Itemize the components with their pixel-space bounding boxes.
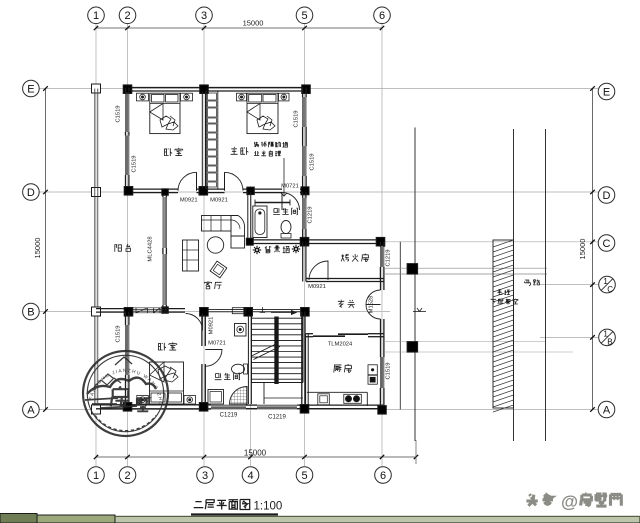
column A-5 (300, 405, 309, 414)
room label 客厅 (204, 281, 221, 289)
grid line axis 5 (304, 23, 306, 466)
svg-text:2: 2 (124, 470, 130, 482)
bed NW fold (150, 104, 163, 121)
svg-text:15000: 15000 (243, 19, 264, 28)
axis bubble A left (23, 401, 40, 418)
wall kitchen north (306, 333, 313, 335)
svg-text:C1219: C1219 (268, 415, 286, 421)
axis bubble A right (598, 401, 615, 418)
column A-2 (123, 403, 132, 412)
wall east SW bedroom (201, 315, 203, 346)
wall west of NW bedroom (125, 88, 127, 93)
room label NW 卧室 (164, 148, 182, 156)
top dimension line 15000 (96, 27, 382, 29)
door M0721 bath2 (205, 350, 222, 367)
road line west (513, 129, 515, 441)
bottom strip light (115, 517, 640, 523)
label 背景墙 (265, 246, 290, 253)
svg-text:C: C (603, 238, 611, 250)
svg-text:C1519: C1519 (116, 325, 122, 342)
bed SW frame (150, 362, 184, 404)
room label 烤火房 (341, 254, 368, 262)
wall kitchen east (380, 334, 382, 358)
wall E row (124, 87, 308, 89)
grid line axis 1 (95, 23, 97, 466)
axis bubble 5 bottom (296, 467, 313, 484)
kitchen sink (318, 394, 330, 405)
nightstand NW right (181, 93, 193, 101)
staircase treads (251, 317, 253, 383)
wall D row (126, 188, 179, 190)
column B-4 (244, 308, 253, 317)
bed SW pillows (151, 393, 165, 402)
room label 主卧 (231, 147, 249, 155)
grid line axis 3 (203, 23, 205, 466)
column D-3 mid (199, 187, 208, 196)
svg-text:M0921: M0921 (308, 284, 326, 290)
wall fire west (302, 242, 304, 282)
flower symbol east (292, 245, 300, 253)
svg-text:M0921: M0921 (209, 317, 215, 335)
partition wall segment (255, 202, 290, 204)
svg-text:C1219: C1219 (386, 249, 392, 266)
svg-text:15000: 15000 (244, 449, 267, 458)
svg-text:D: D (27, 187, 35, 199)
column A-3 (199, 403, 208, 412)
wall east entry (380, 282, 382, 291)
toilet bath1 (281, 221, 291, 234)
wall C row (248, 239, 384, 241)
room label 阳台 (115, 244, 131, 252)
elevation marker (413, 311, 426, 313)
wall A row (96, 404, 211, 406)
svg-text:1: 1 (93, 470, 99, 482)
svg-text:1:100: 1:100 (254, 501, 283, 513)
svg-text:3: 3 (202, 470, 208, 482)
coffee table round (207, 237, 223, 253)
sofa corner (231, 216, 245, 237)
axis bubble D right (598, 187, 615, 204)
column C-5 (300, 237, 309, 246)
bed NE frame (247, 93, 278, 133)
column B-2 (124, 308, 133, 317)
svg-text:@: @ (561, 492, 578, 512)
svg-text:5: 5 (301, 470, 307, 482)
kitchen appliance bottom (368, 375, 377, 384)
shower pan bath2 (230, 387, 248, 405)
wall west SW bedroom (125, 312, 127, 326)
nightstand NW left (137, 93, 149, 101)
stair landing (252, 382, 304, 384)
svg-text:C1519: C1519 (294, 110, 300, 127)
grid line axis D (39, 191, 598, 193)
svg-text:E: E (27, 83, 34, 95)
wall kitchen west (301, 312, 303, 405)
axis bubble 2 bottom (119, 467, 136, 484)
svg-text:B: B (27, 306, 34, 318)
svg-text:2: 2 (124, 10, 130, 22)
svg-text:M0721: M0721 (208, 341, 226, 347)
title underline (191, 513, 278, 515)
door M0921 SW bedroom (186, 314, 203, 331)
porch column lower (407, 342, 418, 353)
bed NW blanket scribble (160, 116, 178, 130)
washbasin bath2 (235, 324, 247, 337)
svg-text:C1519: C1519 (310, 153, 316, 170)
toilet bath2 (232, 364, 245, 374)
stamp watermark (83, 351, 168, 436)
column C-4 west (246, 238, 253, 245)
axis bubble 1/B right (599, 329, 616, 346)
column E-1 outline (92, 84, 101, 93)
note 下层架空 (491, 299, 518, 305)
svg-text:C1519: C1519 (116, 105, 122, 122)
door M0721 bath1 (282, 193, 300, 211)
svg-text:C1519: C1519 (132, 155, 138, 172)
svg-text:MLC4428: MLC4428 (148, 236, 154, 261)
door M0921 NW bedroom (178, 172, 197, 191)
axis bubble 6 top (374, 7, 391, 24)
washing machine bath2 (208, 390, 224, 405)
note arrow (281, 158, 287, 196)
column B-3 (200, 308, 209, 317)
left dimension line 15000 (45, 89, 47, 410)
svg-text:1: 1 (93, 10, 99, 22)
bathtub bath1 (253, 206, 267, 238)
room label 玄关 (338, 300, 355, 308)
column B-1 outline (92, 307, 101, 316)
svg-text:C: C (607, 285, 613, 294)
axis bubble 3 top (196, 7, 213, 24)
entry double door M1528 (366, 290, 381, 319)
nightstand NE left (237, 93, 247, 101)
axis bubble C right (598, 235, 615, 252)
svg-text:E: E (603, 86, 610, 98)
grid line axis 1/C (540, 284, 598, 286)
right dimension line 15000 (592, 89, 594, 410)
shelf bath2 (232, 308, 246, 314)
room label 厨房 (334, 364, 352, 372)
bed NW frame (150, 93, 180, 133)
grid line axis E (39, 88, 598, 90)
svg-text:A: A (603, 404, 611, 416)
bed NE fold (247, 104, 260, 121)
porch edge line (399, 242, 401, 410)
axis bubble E right (598, 83, 615, 100)
wall bath1 east (302, 192, 304, 198)
balcony window wall MLC4428 (162, 192, 164, 197)
grid line axis 2 (127, 23, 129, 466)
svg-text:4: 4 (247, 470, 253, 482)
bed SW blanket scribble (158, 366, 178, 382)
porch column upper (407, 264, 418, 275)
svg-text:M1528: M1528 (369, 296, 375, 314)
svg-text:TLM2024: TLM2024 (328, 342, 353, 348)
column D-2 (124, 187, 133, 196)
nightstand SW right (184, 396, 196, 405)
wardrobe (206, 91, 218, 189)
wall east of NE bedroom (302, 88, 304, 98)
stair arrow up (271, 312, 295, 314)
room label bath2 卫生间 (215, 373, 240, 380)
column E-2 (123, 85, 132, 94)
wall between bedrooms (201, 91, 203, 189)
svg-text:A: A (27, 404, 35, 416)
axis bubble 5 top (296, 7, 313, 24)
stair label 上 (260, 307, 266, 312)
grid line axis C (384, 241, 598, 243)
bottom strip dark (0, 514, 37, 523)
kitchen counter (307, 391, 367, 393)
axis bubble 6 bottom (375, 467, 392, 484)
svg-text:M0921: M0921 (210, 198, 228, 204)
grid line axis 6 (381, 23, 383, 466)
svg-text:D: D (603, 190, 611, 202)
svg-text:3: 3 (201, 10, 207, 22)
svg-text:15000: 15000 (33, 238, 42, 259)
note 毛坯 (497, 289, 510, 294)
column D-5 (301, 187, 309, 195)
title 二层平面图 (194, 500, 250, 510)
room label SW 卧室 (158, 342, 176, 350)
bottom strip mid (37, 515, 115, 523)
west porch edge line (94, 89, 96, 410)
svg-text:5: 5 (301, 10, 307, 22)
column C-6 (376, 237, 385, 246)
flower symbol west (253, 246, 261, 254)
column D-1 outline (92, 188, 101, 197)
road label 马路 (525, 280, 540, 286)
road line east (545, 129, 547, 441)
door M0921 fire (309, 261, 328, 280)
sofa top (202, 216, 232, 232)
bed SW fold (150, 362, 165, 382)
svg-text:M0921: M0921 (180, 198, 198, 204)
sliding door TLM2024 (313, 335, 345, 337)
axis bubble 2 top (119, 7, 136, 24)
bed NE blanket scribble (257, 116, 275, 130)
svg-text:C1219: C1219 (308, 206, 314, 223)
bed NW pillows (152, 95, 165, 103)
wall fire south (306, 278, 384, 280)
room label bath1 卫生间 (273, 208, 297, 215)
side table tilted (210, 261, 227, 278)
sofa left (183, 240, 199, 271)
bottom strip edge (115, 515, 640, 517)
svg-text:6: 6 (379, 10, 385, 22)
sofa right seat (231, 236, 245, 248)
column B-5 (301, 308, 310, 317)
nightstand SW left (137, 396, 149, 405)
column D-4 (247, 187, 255, 195)
svg-text:C1519: C1519 (386, 362, 392, 379)
hatched strip (493, 240, 514, 408)
column E-5 (302, 85, 311, 94)
axis bubble 3 bottom (197, 467, 214, 484)
axis bubble 1 bottom (88, 467, 105, 484)
wall B row balcony-south (96, 308, 130, 310)
svg-text:B: B (607, 338, 612, 347)
porch beam lower (384, 341, 546, 343)
axis bubble E left (23, 80, 40, 97)
axis bubble 1 top (88, 7, 105, 24)
column D-balcony (162, 189, 169, 196)
wall fire east (380, 242, 382, 247)
axis bubble 1/C right (599, 276, 616, 293)
axis bubble 4 bottom (242, 467, 259, 484)
axis bubble B left (23, 303, 40, 320)
footer watermark 头条@房墅网 (525, 492, 621, 512)
axis bubble D left (23, 184, 40, 201)
porch beam upper (384, 273, 547, 275)
wall bath1 west (247, 192, 249, 242)
grid line axis A (39, 409, 598, 411)
kitchen stove (344, 394, 362, 403)
column B-balcony (162, 307, 169, 314)
column A-1 outline (92, 405, 101, 414)
svg-text:15000: 15000 (578, 239, 587, 260)
nightstand NE right (279, 93, 290, 101)
bottom dimension line 15000 (96, 456, 416, 458)
grid line axis 1/B (540, 336, 598, 338)
grid line axis B (39, 311, 390, 313)
column E-3 (200, 85, 209, 94)
window mullions B row (129, 308, 131, 313)
column A-6 (378, 406, 387, 415)
note 装饰隔断墙 (254, 142, 288, 156)
svg-text:6: 6 (380, 470, 386, 482)
bed NE pillows (249, 95, 262, 103)
porch outer line (414, 128, 416, 442)
kitchen appliance top (368, 365, 377, 375)
grid line axis 4 (250, 186, 252, 466)
door M0921 NE bedroom (225, 172, 244, 191)
wall bath2-stair (247, 315, 249, 404)
svg-text:C1219: C1219 (220, 413, 238, 419)
